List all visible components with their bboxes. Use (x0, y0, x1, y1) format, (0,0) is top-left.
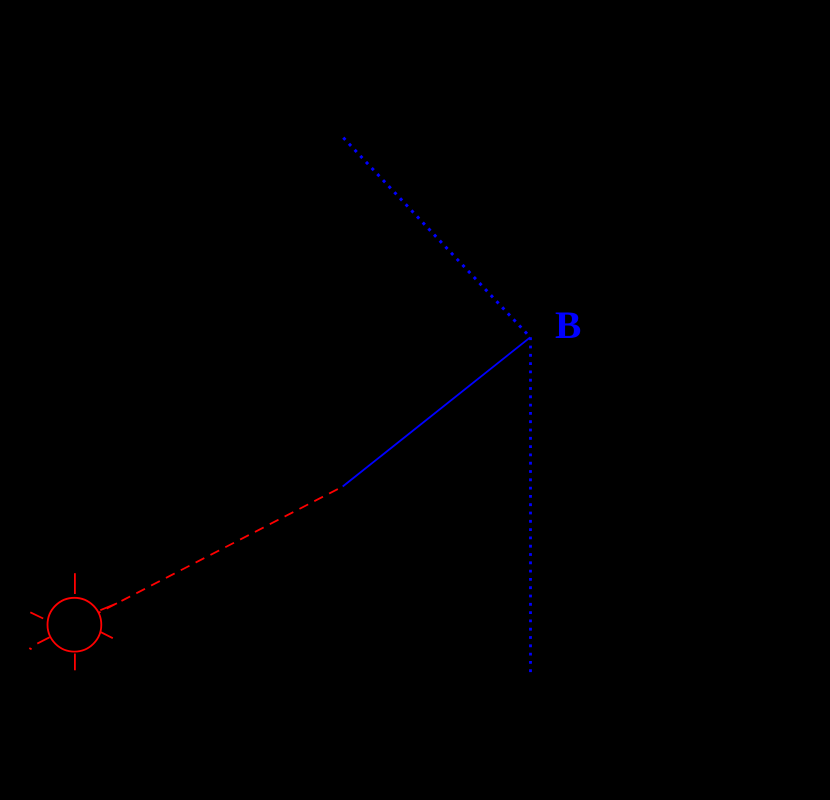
label B (555, 306, 581, 346)
sun ray south (74, 654, 76, 671)
reflected ray (solid blue line from ray kink to B) (343, 337, 531, 486)
tail dot of dashed ray (29, 648, 31, 649)
sun ray lower-right (100, 632, 113, 638)
sun ray upper-left (30, 612, 43, 618)
sun ray lower-left (dash outside circle) (37, 637, 49, 643)
sun ray upper-right (solid segment at circle edge) (100, 603, 117, 610)
sun ray north (74, 573, 76, 594)
incident ray extension (red dashed line from mirror point to sun) (51, 487, 343, 638)
sun body (red circle, black fill masks dashed ray) (48, 598, 102, 652)
dotted blue vertical line below B (529, 337, 532, 673)
dotted blue diagonal line down to B (343, 138, 530, 338)
